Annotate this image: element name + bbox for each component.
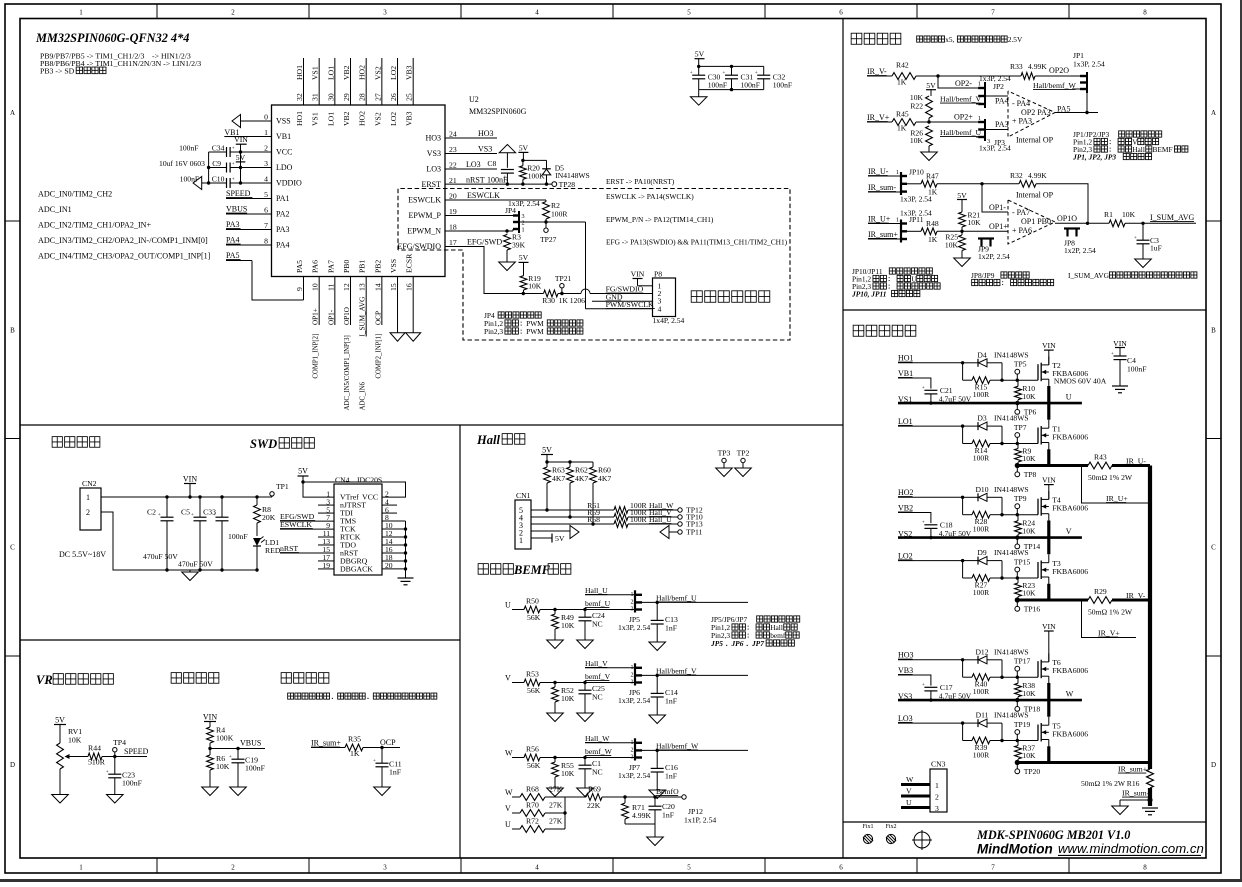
test point TP1 [270, 482, 289, 497]
test point TP7 [1014, 423, 1027, 444]
net I_SUM_AVG (pin13) [359, 297, 367, 337]
net IR_sum- bridge [1122, 789, 1150, 798]
wire hall 5V rail [545, 460, 593, 463]
svg-text:www.mindmotion.com.cn: www.mindmotion.com.cn [1058, 841, 1204, 856]
svg-text:V: V [906, 787, 912, 796]
jumper JP5 1x3P [618, 590, 650, 632]
svg-text:COMP2_INP[1]: COMP2_INP[1] [375, 334, 382, 379]
svg-text:10K: 10K [1022, 589, 1036, 598]
svg-text:10K: 10K [1022, 689, 1036, 698]
MCU bottom pin stubs [304, 277, 414, 337]
svg-text:VS1: VS1 [311, 66, 320, 80]
svg-text:C34: C34 [212, 144, 225, 153]
net VB1 [898, 369, 931, 389]
net IR_U+ [868, 215, 901, 224]
wire gate T1 [1002, 442, 1038, 445]
ground R25 [954, 258, 971, 267]
svg-text:1x3P, 2.54: 1x3P, 2.54 [618, 623, 650, 632]
net Hall/bemf_V [656, 666, 697, 675]
svg-text:IR_U-: IR_U- [868, 167, 889, 176]
net ESWCLK swd [280, 520, 334, 529]
svg-text:5V: 5V [957, 191, 967, 200]
svg-text:LDO: LDO [276, 163, 293, 172]
wire CN3 U [901, 798, 930, 808]
net GND [592, 292, 653, 301]
wire CN3 V [901, 787, 930, 797]
svg-text:100nF: 100nF [773, 80, 792, 89]
title MDK-SPIN060G MB201 V1.0 [976, 828, 1130, 842]
diode D3 IN4148WS [963, 414, 1029, 431]
svg-text:ADC_IN5/COMP1_INP[3]: ADC_IN5/COMP1_INP[3] [344, 335, 351, 410]
diode D12 IN4148WS [963, 647, 1029, 664]
svg-text:4.99K: 4.99K [632, 811, 651, 820]
svg-text:VIN: VIN [1042, 622, 1056, 631]
jumper JP1 1x3P [1073, 51, 1105, 93]
wire gate T5 [1002, 739, 1038, 742]
svg-text:Internal OP: Internal OP [1016, 191, 1054, 200]
resistor R59 100R [614, 508, 678, 520]
svg-text:OP1O: OP1O [343, 307, 351, 325]
svg-text:R42: R42 [896, 61, 909, 70]
svg-text:+: + [191, 513, 194, 518]
svg-text:14: 14 [373, 283, 382, 291]
ground C14 [649, 715, 666, 724]
svg-text:OCP: OCP [374, 311, 382, 325]
ground C3 [1135, 259, 1152, 268]
power VIN vd [203, 713, 217, 728]
resistor R6 10K [207, 749, 230, 788]
test point TP11 [678, 528, 703, 537]
svg-text:D4: D4 [977, 350, 986, 359]
svg-text:2: 2 [631, 599, 634, 605]
svg-text:NMOS 60V 40A: NMOS 60V 40A [1054, 377, 1107, 386]
svg-text:Fix2: Fix2 [885, 824, 896, 830]
svg-text:R70: R70 [526, 801, 539, 810]
svg-text:5V: 5V [519, 143, 529, 152]
svg-text:+: + [158, 513, 161, 518]
wire VDDIO row [202, 181, 272, 184]
svg-text:470uF 50V: 470uF 50V [178, 560, 213, 569]
svg-text:D12: D12 [975, 647, 988, 656]
svg-text:25: 25 [405, 93, 414, 101]
svg-text:R29: R29 [1094, 587, 1107, 596]
test point TP16 [1015, 600, 1040, 613]
svg-text:+: + [232, 178, 235, 183]
svg-text:VB3: VB3 [898, 666, 913, 675]
wire LO3 [445, 160, 497, 169]
net V input [505, 674, 524, 683]
net Hall_V [585, 659, 635, 668]
svg-text:COMP1_INP[2]: COMP1_INP[2] [313, 334, 320, 379]
svg-text:OP2O: OP2O [1049, 66, 1069, 75]
net EFG/SWD swd [280, 512, 334, 521]
wire PA5 output [1055, 112, 1098, 114]
svg-text:IN4148WS: IN4148WS [994, 414, 1029, 423]
resistor R4 100K [207, 726, 234, 749]
svg-text:PB3 -> SD: PB3 -> SD [40, 67, 75, 76]
test point TP5 [1014, 360, 1027, 381]
resistor R68 27K [520, 785, 563, 801]
svg-text:1: 1 [631, 740, 634, 746]
wire IR_V+ tap [1082, 602, 1137, 638]
net VB3 [898, 666, 931, 686]
fixing hole Fix1 [862, 824, 873, 844]
capacitor C11 1nF [373, 748, 402, 788]
text ADC_IN0 [38, 190, 112, 199]
svg-text:10K: 10K [968, 218, 982, 227]
svg-text:TP20: TP20 [1024, 767, 1041, 776]
svg-text:RED: RED [265, 546, 281, 555]
svg-text:1: 1 [978, 115, 981, 122]
svg-text:1: 1 [522, 227, 525, 234]
power 5V SWD [298, 467, 309, 484]
svg-text:2: 2 [231, 864, 235, 872]
svg-text:ADC_IN4/TIM2_CH3/OPA2_OUT/COMP: ADC_IN4/TIM2_CH3/OPA2_OUT/COMP1_INP[1] [38, 252, 211, 261]
svg-text:IR_sum+: IR_sum+ [1118, 765, 1148, 774]
diode D5 IN4148WS [542, 160, 590, 184]
resistor R25 10K [945, 231, 965, 258]
power 5V R21 [957, 191, 967, 212]
svg-text:VS3: VS3 [427, 149, 441, 158]
svg-text:7: 7 [264, 221, 268, 230]
VSS input arrow [232, 115, 241, 128]
svg-text:4K7: 4K7 [598, 474, 611, 483]
resistor R21 10K [959, 211, 981, 232]
power 5V LDO [236, 153, 246, 168]
power 5V OP2 [926, 81, 936, 96]
wire EPWM_P [445, 215, 513, 217]
svg-text:4: 4 [535, 864, 539, 872]
svg-text:TP8: TP8 [1024, 470, 1037, 479]
resistor R62 4K7 [567, 462, 589, 517]
svg-text:R43: R43 [1094, 453, 1107, 462]
power 5V hall [541, 446, 553, 463]
svg-text:LO3: LO3 [426, 164, 441, 173]
capacitor C17 4.7uF 50V [922, 683, 972, 702]
resistor R70 27K [520, 801, 563, 817]
potentiometer RV1 10K [57, 727, 88, 795]
svg-text:1: 1 [264, 128, 268, 137]
svg-text:VDDIO: VDDIO [276, 178, 302, 187]
svg-text:DC 5.5V~18V: DC 5.5V~18V [59, 550, 106, 559]
svg-text:4.99K: 4.99K [1028, 171, 1047, 180]
svg-text:24: 24 [449, 130, 457, 139]
net LO1 [898, 417, 964, 428]
svg-text:PA7: PA7 [326, 260, 335, 273]
resistor R56 56K [524, 745, 541, 771]
svg-text:IDC20S: IDC20S [357, 476, 382, 485]
wire FG/SWDIO [558, 289, 653, 294]
svg-text:IR_V+: IR_V+ [1098, 629, 1120, 638]
svg-text:PA6: PA6 [311, 260, 320, 273]
svg-text:HO3: HO3 [478, 129, 494, 138]
wire EPWM_N [445, 229, 513, 233]
svg-text:TP4: TP4 [113, 738, 126, 747]
svg-text:4K7: 4K7 [552, 474, 565, 483]
svg-text:BEMF: BEMF [513, 563, 551, 577]
svg-text:56K: 56K [527, 686, 541, 695]
svg-text:ESWCLK -> PA14(SWCLK): ESWCLK -> PA14(SWCLK) [606, 192, 694, 201]
svg-text:ADC_IN1: ADC_IN1 [38, 205, 72, 214]
svg-text:3: 3 [935, 804, 939, 813]
wire gate T4 [1002, 513, 1038, 516]
svg-text:22: 22 [449, 161, 457, 170]
svg-text:Pin2,3: Pin2,3 [484, 327, 503, 336]
title 过流保护 [281, 673, 329, 684]
svg-text:7: 7 [991, 864, 995, 872]
svg-text:D9: D9 [977, 548, 986, 557]
svg-text:56K: 56K [527, 761, 541, 770]
svg-text:PA3: PA3 [226, 220, 240, 229]
svg-text:Hall: Hall [1132, 145, 1145, 154]
resistor R48 1K [907, 219, 939, 244]
svg-text:3: 3 [383, 9, 387, 17]
svg-text:2: 2 [935, 793, 939, 802]
svg-text:bemf_U: bemf_U [585, 599, 611, 608]
resistor R37 10K [1015, 741, 1036, 763]
wire hall U row [531, 515, 614, 526]
connector CN1 [515, 491, 531, 549]
svg-text:D3: D3 [977, 414, 986, 423]
net IR_U- [868, 167, 901, 176]
svg-text:MindMotion: MindMotion [977, 842, 1053, 857]
svg-text:C8: C8 [487, 159, 496, 168]
wire OP1 output [1055, 222, 1145, 225]
svg-text:PB0: PB0 [342, 260, 351, 273]
test point TP6 [1015, 403, 1037, 416]
title 电流采样 [851, 33, 1023, 44]
svg-text:ADC_IN6: ADC_IN6 [360, 381, 367, 410]
jumper JP3 1x3P [978, 115, 1005, 147]
svg-text:1: 1 [631, 665, 634, 671]
svg-text:100nF: 100nF [228, 532, 248, 541]
resistor R32 4.99K [1010, 171, 1047, 187]
svg-text:C9: C9 [212, 159, 221, 168]
svg-text:R58: R58 [587, 515, 600, 524]
svg-text:SPEED: SPEED [124, 747, 149, 756]
svg-text:10K: 10K [561, 621, 575, 630]
test point JP12 [682, 795, 717, 825]
svg-text:R48: R48 [926, 219, 939, 228]
wire low source T3 [1047, 584, 1050, 600]
svg-text:20: 20 [449, 192, 457, 201]
svg-text:3: 3 [631, 755, 634, 761]
resistor R35 1K [345, 735, 363, 759]
note I_SUM_AVG valid [1068, 271, 1197, 280]
svg-text:6: 6 [839, 9, 843, 17]
svg-text:ADC_IN0/TIM2_CH2: ADC_IN0/TIM2_CH2 [38, 190, 112, 199]
svg-text:1K 1206: 1K 1206 [559, 296, 586, 305]
svg-text:10K: 10K [561, 694, 575, 703]
power VIN T2 [1042, 341, 1056, 365]
resistor R16 50mR [1081, 769, 1153, 788]
svg-text:U: U [505, 820, 511, 829]
svg-text:100K: 100K [216, 734, 234, 743]
svg-text:VIN: VIN [234, 135, 248, 144]
svg-text:IN4148WS: IN4148WS [555, 171, 590, 180]
svg-text:2: 2 [231, 9, 235, 17]
power VIN P8 [631, 270, 653, 286]
svg-text:FKBA6006: FKBA6006 [1052, 504, 1088, 513]
resistor R22 10K [910, 93, 932, 122]
ground R26 [921, 152, 938, 161]
svg-text:VIN: VIN [1042, 475, 1056, 484]
text ADC_IN2 [38, 221, 152, 230]
svg-text:LO1: LO1 [326, 112, 335, 126]
resistor R28 100R [963, 497, 1004, 533]
svg-text:100R: 100R [973, 525, 990, 534]
svg-text:IR_U+: IR_U+ [868, 215, 891, 224]
wire low source T1 [1047, 449, 1050, 465]
svg-text:TP11: TP11 [686, 528, 703, 537]
svg-text:4K7: 4K7 [575, 474, 588, 483]
svg-text:IN4148WS: IN4148WS [994, 350, 1029, 359]
diode D10 IN4148WS [963, 485, 1029, 502]
svg-text:39K: 39K [512, 241, 526, 250]
test point TP17 [1014, 657, 1031, 678]
wire CN1 pin2 arrow [531, 526, 579, 539]
svg-text:FKBA6006: FKBA6006 [1052, 666, 1088, 675]
test point TP13 [678, 520, 703, 529]
svg-text:PA3: PA3 [276, 225, 290, 234]
svg-text:3: 3 [631, 607, 634, 613]
svg-text:5V: 5V [542, 446, 552, 455]
net OP1+ (pin10) [312, 308, 320, 325]
svg-text:SPEED: SPEED [226, 189, 251, 198]
svg-text:10K: 10K [1022, 751, 1036, 760]
svg-text:VSS: VSS [276, 116, 291, 125]
svg-text:1: 1 [935, 781, 939, 790]
net VS1 [898, 395, 913, 404]
svg-text:C2: C2 [147, 508, 156, 517]
wire hall W row [531, 501, 614, 512]
wire mix out [602, 795, 682, 798]
svg-text:JP6: JP6 [730, 639, 743, 648]
svg-text:R32: R32 [1010, 171, 1023, 180]
svg-text:bemf_V: bemf_V [585, 672, 611, 681]
svg-text:7: 7 [991, 9, 995, 17]
wire phase U [898, 386, 1082, 420]
jumper JP8 1x2P [1064, 229, 1096, 256]
resistor R47 1K [907, 172, 939, 197]
ground bridge earth [1142, 808, 1158, 815]
resistor R8 20K [254, 497, 276, 536]
ground C25 [577, 713, 594, 722]
ground arrow pin16 ECSR [406, 333, 421, 342]
ground C1 [577, 788, 594, 797]
svg-text:ESWCLK: ESWCLK [467, 191, 500, 200]
svg-text:U: U [1066, 392, 1072, 401]
arrow TP11 [660, 526, 678, 539]
wire node W thick [1015, 760, 1150, 765]
svg-text:27K: 27K [549, 801, 563, 810]
svg-text:TP2: TP2 [737, 449, 750, 458]
text DC 5.5V-18V [59, 550, 106, 559]
wire phase V [898, 521, 1082, 555]
svg-text:100nF: 100nF [1127, 365, 1146, 374]
transistor T3 FKBA6006 [1038, 554, 1088, 584]
svg-text:+: + [106, 770, 109, 775]
svg-text:+ PA3: + PA3 [1012, 117, 1032, 126]
svg-text:100R: 100R [973, 588, 990, 597]
svg-text:9: 9 [295, 287, 304, 291]
resistor R33 4.99K [1010, 62, 1047, 79]
net Hall/bemf_V [940, 95, 982, 105]
op-amp OP1 internal [1008, 191, 1077, 245]
svg-text:50mΩ 1% 2W: 50mΩ 1% 2W [1088, 473, 1133, 482]
ground C11 [374, 787, 391, 796]
wire R29 to bus [1112, 599, 1150, 602]
svg-text:LO2: LO2 [389, 112, 398, 126]
svg-text:DBGACK: DBGACK [340, 565, 373, 574]
svg-text:VB1: VB1 [898, 369, 913, 378]
svg-text:1: 1 [79, 9, 83, 17]
net OCP (pin14) [374, 311, 382, 325]
svg-text:R35: R35 [348, 735, 361, 744]
svg-text:FKBA6006: FKBA6006 [1052, 730, 1088, 739]
capacitor C9 10uF [159, 159, 235, 173]
label 1x3P upper [979, 74, 1011, 83]
capacitor C30 100nF [690, 66, 727, 89]
test point TP8 [1015, 466, 1037, 479]
MCU right pin names and numbers [397, 130, 456, 251]
svg-text:1x1P, 2.54: 1x1P, 2.54 [684, 816, 716, 825]
svg-text:W: W [1066, 689, 1074, 698]
svg-text:510R: 510R [88, 758, 106, 767]
note PB9 mapping [40, 52, 201, 76]
svg-text:VB2: VB2 [342, 65, 351, 80]
svg-text:15: 15 [389, 283, 398, 291]
jumper JP4 1x3P [505, 199, 540, 234]
wire bemf row V [540, 681, 635, 684]
resistor R3 39K [504, 233, 526, 263]
svg-text:OCP: OCP [380, 738, 396, 747]
test point TP19 [1014, 720, 1031, 741]
text ADC_IN4 [38, 252, 211, 261]
capacitor C5 470uF [178, 497, 213, 570]
svg-text:100R: 100R [973, 687, 990, 696]
svg-text:C: C [10, 544, 15, 552]
title 电压检测 [171, 673, 219, 684]
svg-text:1x2P, 2.54: 1x2P, 2.54 [978, 252, 1010, 261]
svg-text:IN4148WS: IN4148WS [994, 548, 1029, 557]
svg-text:C33: C33 [203, 508, 216, 517]
svg-text:5: 5 [687, 864, 691, 872]
title Hall检测 [476, 433, 525, 447]
resistor R60 4K7 [590, 462, 612, 524]
svg-text:5V: 5V [55, 716, 65, 725]
svg-text:bemf_W: bemf_W [585, 747, 613, 756]
title VR模拟量调速 [36, 673, 113, 687]
svg-text:3: 3 [383, 864, 387, 872]
net W mix [505, 788, 520, 797]
svg-text:OP1+: OP1+ [989, 222, 1008, 231]
svg-text:1x3P, 2.54: 1x3P, 2.54 [979, 144, 1011, 153]
svg-text:OP2-: OP2- [955, 79, 972, 88]
wire nRST row [445, 176, 552, 186]
test point TP15 [1014, 558, 1031, 579]
note JP5/JP6/JP7 [710, 615, 800, 648]
svg-text:HO3: HO3 [898, 651, 914, 660]
svg-text:JP8/JP9: JP8/JP9 [971, 271, 995, 280]
note ERST mapping [606, 177, 675, 186]
resistor R43 50mR [1088, 453, 1133, 483]
wire JP4 pin2 to R2 [520, 220, 548, 223]
svg-text:R45: R45 [896, 110, 909, 119]
svg-text:D: D [10, 761, 15, 769]
jumper JP7 1x3P [618, 738, 650, 780]
svg-text:1: 1 [896, 217, 899, 224]
